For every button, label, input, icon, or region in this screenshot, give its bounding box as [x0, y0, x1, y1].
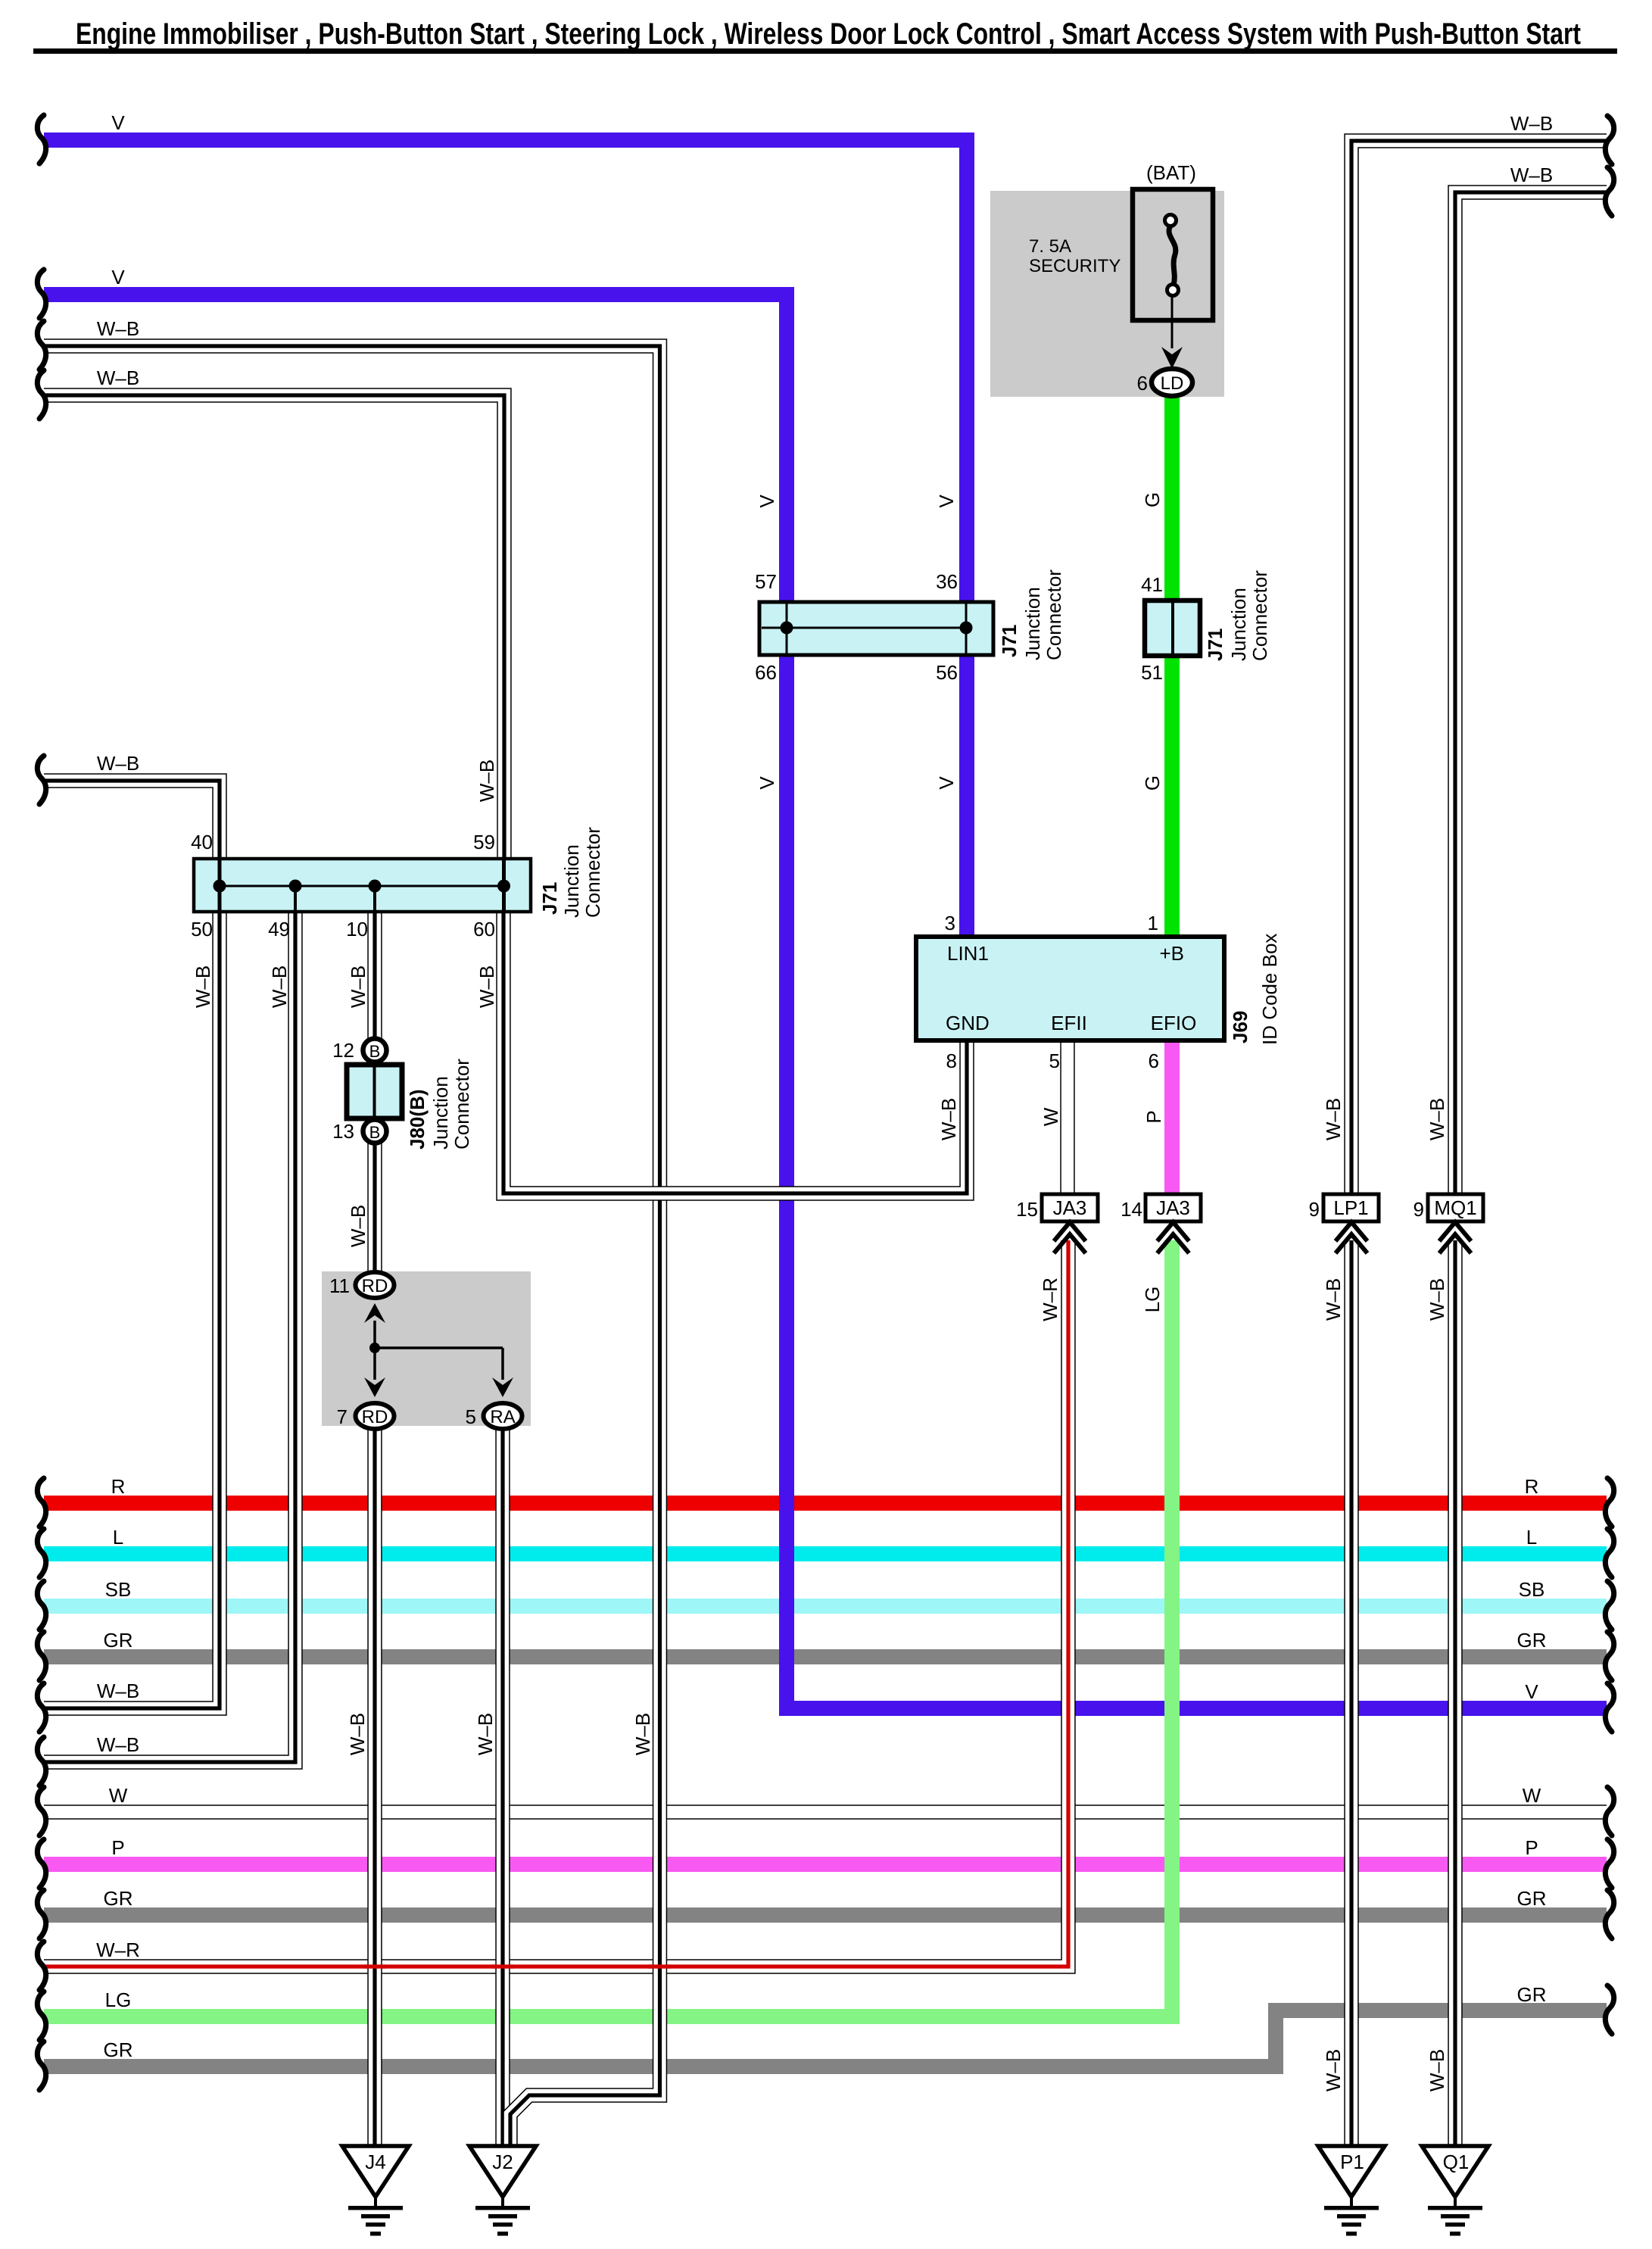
- connector circle B 13: [363, 1120, 387, 1143]
- wire W-B RA to J2 ground: [495, 1430, 510, 2146]
- connector box 14 JA3: [1145, 1194, 1201, 1221]
- svg-text:GR: GR: [104, 1629, 133, 1652]
- svg-text:V: V: [111, 266, 125, 289]
- svg-text:41: 41: [1141, 573, 1163, 596]
- svg-text:R: R: [111, 1475, 126, 1498]
- rotated wire labels: [192, 492, 1448, 2091]
- svg-text:Connector: Connector: [450, 1059, 473, 1149]
- rotated box labels: [406, 569, 1281, 1149]
- svg-text:W–B: W–B: [1322, 2049, 1345, 2091]
- svg-text:W–B: W–B: [97, 752, 139, 775]
- svg-text:SB: SB: [105, 1578, 132, 1601]
- svg-text:7: 7: [337, 1405, 348, 1428]
- svg-text:Junction: Junction: [1227, 588, 1250, 661]
- wire bus GR bottom with jog: [44, 2010, 1607, 2067]
- svg-text:W–B: W–B: [631, 1713, 654, 1755]
- wire W-B long vertical to J2: [44, 346, 660, 2146]
- svg-text:EFII: EFII: [1051, 1012, 1087, 1034]
- svg-text:W–B: W–B: [347, 1205, 369, 1247]
- svg-text:G: G: [1141, 775, 1164, 791]
- svg-text:R: R: [1525, 1475, 1539, 1498]
- svg-text:W–B: W–B: [268, 965, 291, 1008]
- svg-text:50: 50: [191, 918, 213, 940]
- svg-text:GND: GND: [946, 1012, 990, 1034]
- left edge wire breaks: [37, 115, 45, 2090]
- svg-text:EFIO: EFIO: [1151, 1012, 1197, 1034]
- svg-text:W–B: W–B: [1510, 112, 1553, 135]
- wire bus V right portion: [787, 1701, 1607, 1716]
- svg-text:9: 9: [1309, 1198, 1320, 1221]
- wire bus L: [44, 1546, 1607, 1561]
- wire W-B J69 GND to J71 pin60: [503, 912, 967, 1193]
- right edge wire breaks: [1605, 116, 1613, 2034]
- svg-text:GR: GR: [1517, 1887, 1547, 1910]
- svg-text:5: 5: [466, 1405, 476, 1428]
- svg-text:49: 49: [268, 918, 290, 940]
- svg-text:W–B: W–B: [475, 965, 498, 1008]
- svg-text:GR: GR: [1517, 1629, 1547, 1652]
- svg-text:LIN1: LIN1: [947, 942, 989, 965]
- svg-text:L: L: [113, 1526, 123, 1549]
- svg-text:15: 15: [1016, 1198, 1038, 1221]
- svg-text:W–B: W–B: [1426, 1278, 1448, 1321]
- svg-text:(BAT): (BAT): [1146, 161, 1196, 184]
- svg-text:P1: P1: [1340, 2151, 1364, 2173]
- svg-text:Junction: Junction: [560, 844, 583, 918]
- ground Q1: [1422, 2146, 1488, 2236]
- svg-text:V: V: [935, 776, 958, 790]
- wire W-R red patches over crossings: [363, 1964, 672, 1968]
- gray box RD/RA relay area: [322, 1271, 531, 1426]
- svg-text:14: 14: [1121, 1198, 1142, 1221]
- chevrons 15 JA3: [1054, 1222, 1086, 1253]
- svg-text:1: 1: [1148, 912, 1158, 934]
- left bus labels: [96, 111, 140, 2061]
- wire bus GR upper: [44, 1649, 1607, 1664]
- ID code box J69: [916, 937, 1224, 1040]
- svg-text:V: V: [111, 111, 125, 134]
- svg-text:W: W: [109, 1784, 128, 1807]
- wire bus R: [44, 1496, 1607, 1511]
- junction connector J71 small box: [1145, 600, 1200, 656]
- right bus labels: [1510, 112, 1553, 2006]
- svg-text:LD: LD: [1161, 373, 1184, 394]
- svg-text:66: 66: [755, 661, 777, 684]
- arrow up into RD 11: [364, 1303, 385, 1323]
- wire W-B J71 pin50: [44, 912, 220, 1708]
- svg-text:W–R: W–R: [1039, 1277, 1061, 1321]
- svg-text:GR: GR: [104, 2038, 133, 2061]
- svg-text:W–B: W–B: [937, 1098, 960, 1140]
- svg-text:W–B: W–B: [97, 1680, 139, 1702]
- svg-text:RD: RD: [362, 1276, 388, 1296]
- svg-text:W–B: W–B: [97, 1733, 139, 1756]
- svg-text:W–B: W–B: [346, 1713, 369, 1755]
- svg-text:MQ1: MQ1: [1434, 1196, 1476, 1219]
- svg-text:W–R: W–R: [96, 1939, 140, 1961]
- svg-text:8: 8: [946, 1050, 957, 1072]
- wire G green fuse to +B: [1164, 394, 1180, 939]
- svg-text:LG: LG: [1141, 1287, 1164, 1313]
- svg-text:RD: RD: [362, 1407, 388, 1427]
- chevrons 14 JA3: [1158, 1222, 1189, 1253]
- svg-text:W–B: W–B: [192, 965, 214, 1008]
- ground J2: [469, 2146, 536, 2236]
- wire P pink EFIO to 14 JA3: [1164, 1040, 1180, 1194]
- wire W-B J71 pin59: [44, 395, 504, 859]
- wire V violet 2 to V bus: [44, 295, 810, 1708]
- svg-text:W–B: W–B: [1322, 1098, 1345, 1140]
- svg-text:J4: J4: [365, 2151, 385, 2173]
- connector box 9 MQ1: [1428, 1194, 1483, 1221]
- wire LG bus to 14 JA3: [44, 1240, 1172, 2017]
- junction connector J80(B) box: [347, 1065, 402, 1118]
- wire W-B LP1 to P1: [1351, 141, 1607, 1194]
- wire W-B J71 pin49: [44, 912, 295, 1762]
- svg-text:JA3: JA3: [1156, 1196, 1190, 1219]
- svg-text:11: 11: [329, 1274, 350, 1297]
- connector circle B 12: [363, 1039, 387, 1062]
- svg-text:W–B: W–B: [347, 965, 369, 1008]
- chevrons 9 MQ1: [1439, 1222, 1471, 1253]
- connector box 9 LP1: [1323, 1194, 1379, 1221]
- svg-text:ID Code Box: ID Code Box: [1258, 934, 1281, 1045]
- svg-text:57: 57: [755, 570, 777, 593]
- chevrons 9 LP1: [1336, 1222, 1367, 1253]
- svg-text:5: 5: [1049, 1050, 1060, 1072]
- wire W-B J71 pin40: [44, 781, 220, 859]
- svg-text:Junction: Junction: [429, 1076, 452, 1149]
- svg-text:B: B: [369, 1042, 381, 1061]
- ground P1: [1318, 2146, 1385, 2236]
- svg-text:J71: J71: [1204, 629, 1227, 661]
- svg-text:V: V: [935, 494, 958, 508]
- svg-text:P: P: [1525, 1836, 1538, 1859]
- svg-text:W–B: W–B: [474, 1713, 497, 1755]
- svg-text:J2: J2: [492, 2151, 513, 2173]
- svg-text:LG: LG: [105, 1989, 132, 2011]
- svg-text:9: 9: [1414, 1198, 1424, 1221]
- relay internal wiring RD/RA: [369, 1321, 503, 1380]
- svg-text:LP1: LP1: [1333, 1196, 1368, 1219]
- svg-text:J69: J69: [1229, 1011, 1251, 1043]
- arrow down into LD: [1161, 347, 1183, 369]
- arrow down to RD 7: [364, 1377, 385, 1397]
- svg-text:6: 6: [1137, 372, 1148, 395]
- fuse box 7.5A SECURITY: [1133, 189, 1213, 348]
- svg-text:7. 5A: 7. 5A: [1029, 236, 1071, 257]
- gray box 7.5A SECURITY area: [990, 191, 1224, 397]
- junction connector J71 left box: [194, 859, 531, 912]
- arrow down to RA 5: [492, 1377, 513, 1397]
- svg-text:Engine Immobiliser , Push-Butt: Engine Immobiliser , Push-Button Start ,…: [76, 17, 1581, 51]
- svg-text:V: V: [756, 776, 778, 790]
- svg-text:59: 59: [473, 831, 495, 853]
- wire bus GR middle: [44, 1907, 1607, 1923]
- wire W-B J71 pin10 to J80 to RD: [367, 912, 382, 1273]
- svg-text:SECURITY: SECURITY: [1029, 256, 1121, 276]
- svg-text:V: V: [1525, 1680, 1538, 1703]
- svg-text:Connector: Connector: [1248, 570, 1271, 661]
- wire W-B RD to J4 ground: [367, 1430, 382, 2146]
- svg-text:L: L: [1526, 1526, 1537, 1549]
- svg-text:W–B: W–B: [97, 317, 139, 340]
- svg-text:RA: RA: [490, 1407, 515, 1427]
- svg-text:13: 13: [332, 1120, 354, 1143]
- wire bus P: [44, 1857, 1607, 1872]
- svg-text:V: V: [756, 494, 778, 508]
- svg-text:10: 10: [346, 918, 368, 940]
- wire W EFII to 15 JA3: [1060, 1040, 1074, 1194]
- svg-text:W–B: W–B: [1426, 2049, 1448, 2091]
- connector oval 11 RD: [356, 1272, 394, 1298]
- svg-text:Connector: Connector: [581, 827, 604, 918]
- junction connector J71 middle box: [759, 602, 993, 655]
- connector oval 7 RD: [356, 1403, 394, 1429]
- svg-text:3: 3: [945, 912, 955, 934]
- svg-text:W–B: W–B: [1426, 1098, 1448, 1140]
- connector oval 6 LD: [1152, 369, 1192, 396]
- svg-text:W: W: [1523, 1784, 1541, 1807]
- wire W-R bus to 15 JA3: [44, 1240, 1068, 1967]
- svg-text:60: 60: [473, 918, 495, 940]
- svg-text:W–B: W–B: [1322, 1278, 1345, 1321]
- svg-text:GR: GR: [104, 1887, 133, 1910]
- wire bus W: [44, 1805, 1607, 1819]
- svg-text:Connector: Connector: [1043, 569, 1065, 660]
- svg-text:+B: +B: [1159, 942, 1184, 965]
- connector oval 5 RA: [484, 1403, 522, 1429]
- svg-text:W–B: W–B: [97, 367, 139, 389]
- svg-text:P: P: [111, 1836, 124, 1859]
- svg-text:12: 12: [332, 1039, 354, 1062]
- connector box 15 JA3: [1042, 1194, 1098, 1221]
- wire bus SB: [44, 1599, 1607, 1614]
- svg-text:W–B: W–B: [1510, 164, 1553, 186]
- svg-text:J71: J71: [998, 625, 1021, 657]
- svg-text:P: P: [1142, 1110, 1165, 1123]
- wire W-B MQ1 to Q1: [1455, 192, 1607, 1194]
- svg-text:56: 56: [936, 661, 958, 684]
- svg-text:SB: SB: [1519, 1578, 1545, 1601]
- svg-text:J80(B): J80(B): [406, 1090, 429, 1149]
- svg-text:6: 6: [1149, 1050, 1159, 1072]
- svg-text:J71: J71: [538, 882, 561, 915]
- svg-text:W: W: [1040, 1107, 1062, 1126]
- svg-text:51: 51: [1141, 661, 1163, 684]
- ground J4: [342, 2146, 409, 2236]
- svg-text:40: 40: [191, 831, 213, 853]
- svg-text:GR: GR: [1517, 1983, 1547, 2006]
- pin number labels: [191, 372, 1424, 1428]
- svg-text:W–B: W–B: [475, 760, 498, 802]
- svg-text:Q1: Q1: [1443, 2151, 1470, 2173]
- svg-text:B: B: [369, 1123, 381, 1142]
- wire V violet 1 to LIN1: [44, 140, 967, 939]
- svg-text:JA3: JA3: [1053, 1196, 1087, 1219]
- svg-text:Junction: Junction: [1021, 587, 1044, 660]
- svg-text:G: G: [1141, 492, 1164, 507]
- svg-text:36: 36: [936, 570, 958, 593]
